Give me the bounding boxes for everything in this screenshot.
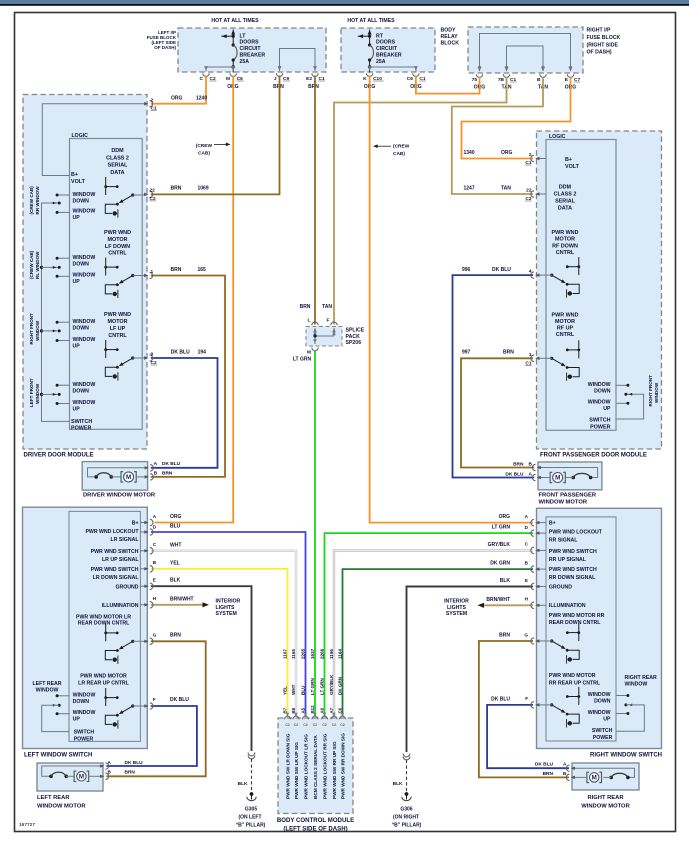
svg-text:J: J (274, 76, 277, 82)
svg-text:B: B (154, 470, 158, 476)
jumper 75 to E inside right fuse block (480, 34, 571, 72)
left switch S-down (G) (105, 623, 107, 641)
svg-text:RF DOWN: RF DOWN (552, 243, 578, 249)
svg-text:DK BLU: DK BLU (535, 762, 554, 768)
right switch pin A (535, 521, 539, 524)
wire BRN (right switch G to right rear motor B) (479, 641, 569, 777)
svg-text:B: B (537, 77, 541, 83)
svg-text:(ON LEFT: (ON LEFT (238, 815, 261, 821)
svg-text:A7: A7 (329, 707, 334, 713)
driver motor pin A (145, 466, 149, 469)
svg-text:LOGIC: LOGIC (549, 134, 566, 140)
svg-text:GRY/BLK: GRY/BLK (329, 674, 334, 695)
svg-text:RR WINDOW: RR WINDOW (35, 186, 40, 215)
svg-text:CAB): CAB) (393, 151, 405, 157)
svg-text:LR REAR UP CNTRL: LR REAR UP CNTRL (78, 680, 129, 686)
svg-text:GRY/BLK: GRY/BLK (488, 542, 511, 548)
svg-text:LT: LT (240, 33, 247, 39)
front passenger door module logic box (546, 140, 616, 431)
svg-text:WINDOW: WINDOW (73, 382, 96, 388)
svg-text:B+: B+ (132, 521, 139, 527)
svg-text:BRN: BRN (499, 633, 510, 639)
svg-text:LIGHTS: LIGHTS (447, 605, 467, 611)
svg-text:PWR WND MOTOR RR: PWR WND MOTOR RR (549, 613, 605, 619)
jumper J to E2 inside left fuse block (280, 49, 316, 72)
svg-text:LOGIC: LOGIC (72, 133, 89, 139)
passenger switch S1 (RF down) (578, 257, 580, 275)
wire ORG from pin M/C6 to left window switch pin A (155, 76, 234, 523)
svg-text:PWR WND: PWR WND (552, 230, 579, 236)
svg-text:167727: 167727 (19, 822, 35, 828)
svg-text:DK BLU: DK BLU (505, 472, 524, 478)
svg-text:ORG: ORG (499, 514, 511, 520)
wire ORG from pin K/C10 to right window switch pin A (370, 76, 533, 523)
svg-text:WINDOW: WINDOW (73, 273, 96, 279)
svg-text:B: B (153, 560, 157, 565)
ground symbol G305 (250, 792, 254, 796)
svg-text:1069: 1069 (198, 186, 209, 192)
svg-text:PWR WND SWITCH: PWR WND SWITCH (549, 567, 597, 573)
svg-text:UP: UP (73, 406, 81, 412)
svg-text:PWR WND LOCKOUT LR SIG: PWR WND LOCKOUT LR SIG (304, 734, 309, 799)
svg-text:PWR WND SW LR UP SIG: PWR WND SW LR UP SIG (294, 742, 299, 799)
passenger switch S2 (RF up) (578, 340, 580, 358)
svg-text:M: M (307, 350, 311, 356)
title bar (0, 0, 689, 4)
svg-text:WHT: WHT (291, 684, 296, 695)
svg-text:(CREW: (CREW (196, 143, 213, 149)
svg-text:M: M (555, 475, 560, 482)
wire DK GRN (BCM C6 to right switch B) (343, 569, 534, 716)
passenger module pin 1/C1 (535, 357, 539, 360)
pin M / C6 (231, 66, 235, 71)
left switch pin H (144, 603, 148, 606)
svg-text:MOTOR: MOTOR (555, 319, 575, 325)
svg-text:WINDOW: WINDOW (588, 692, 611, 698)
left rear motor pin B (100, 775, 104, 778)
svg-text:H: H (153, 596, 157, 601)
wire BRN/WHT to interior lights (right) (483, 604, 533, 606)
svg-text:25A: 25A (240, 59, 250, 65)
contact group RIGHT FRONT WINDOW (passenger) (616, 384, 628, 386)
svg-text:1164: 1164 (337, 649, 342, 659)
svg-text:A: A (153, 514, 157, 519)
svg-text:BRN: BRN (513, 461, 524, 467)
svg-text:LT GRN: LT GRN (319, 678, 324, 695)
left rear motor pin A (100, 764, 104, 767)
wire: breaker to pin C inside box (206, 66, 233, 68)
svg-text:PWR WND LOCKOUT: PWR WND LOCKOUT (549, 529, 603, 535)
svg-text:F: F (525, 696, 528, 701)
svg-text:BLK: BLK (500, 578, 511, 584)
svg-text:C2: C2 (322, 723, 327, 727)
svg-text:RIGHT REAR: RIGHT REAR (587, 795, 624, 801)
svg-text:WINDOW MOTOR: WINDOW MOTOR (539, 500, 588, 506)
svg-text:165: 165 (198, 267, 207, 273)
pin C / C2 (204, 66, 208, 71)
pin 7B / C1 (505, 67, 509, 72)
svg-text:DDM: DDM (111, 148, 124, 154)
ground symbol G306 (405, 792, 409, 796)
svg-text:DK BLU: DK BLU (492, 267, 511, 273)
svg-text:CNTRL: CNTRL (556, 250, 575, 256)
svg-text:CIRCUIT: CIRCUIT (240, 46, 262, 52)
svg-text:BCM CLASS 2 SERIAL DATA: BCM CLASS 2 SERIAL DATA (313, 735, 318, 799)
svg-text:FUSE BLOCK: FUSE BLOCK (587, 35, 621, 41)
svg-text:WINDOW: WINDOW (73, 400, 96, 406)
svg-text:OF DASH): OF DASH) (587, 50, 612, 56)
wire TAN 1247 (fuse pin B to passenger module pin 22) (452, 77, 543, 195)
svg-text:CLASS 2: CLASS 2 (554, 191, 577, 197)
svg-text:1: 1 (151, 269, 154, 275)
svg-text:RIGHT FRONT: RIGHT FRONT (648, 375, 653, 407)
svg-text:BRN: BRN (170, 633, 181, 639)
motor M1 driver window (124, 472, 134, 482)
svg-text:2266: 2266 (319, 648, 324, 659)
svg-text:SWITCH: SWITCH (74, 729, 95, 735)
driver pin lines to edge (133, 194, 147, 196)
svg-text:GROUND: GROUND (549, 585, 572, 591)
svg-text:(ON RIGHT: (ON RIGHT (393, 815, 419, 821)
svg-text:G: G (153, 633, 157, 638)
svg-text:BLU: BLU (300, 685, 305, 695)
svg-text:C2: C2 (285, 723, 290, 727)
passenger module pin 2/C1 (535, 157, 539, 160)
svg-text:C2: C2 (313, 723, 318, 727)
splice pin F (332, 328, 336, 333)
svg-text:25A: 25A (376, 59, 386, 65)
front passenger window motor box (538, 462, 602, 490)
svg-text:B: B (529, 461, 533, 467)
svg-text:BLK: BLK (393, 781, 403, 787)
svg-text:RR UP SIGNAL: RR UP SIGNAL (549, 557, 587, 563)
svg-text:C2: C2 (303, 723, 308, 727)
right rear motor internal loop (572, 768, 634, 777)
svg-text:UP: UP (73, 343, 81, 349)
svg-text:RF UP: RF UP (557, 326, 574, 332)
svg-text:RIGHT WINDOW SWITCH: RIGHT WINDOW SWITCH (590, 753, 662, 759)
svg-text:A: A (525, 514, 529, 519)
right switch pin C (535, 549, 539, 552)
svg-text:BRN: BRN (162, 470, 173, 476)
right window switch box (537, 508, 662, 748)
left window switch inner box (69, 511, 140, 741)
contact group RIGHT FRONT WINDOW (driver) (57, 321, 70, 323)
svg-text:RIGHT FRONT: RIGHT FRONT (29, 313, 34, 345)
svg-text:(CREW: (CREW (393, 143, 410, 149)
svg-text:B7: B7 (282, 707, 287, 713)
svg-text:H: H (525, 597, 529, 602)
svg-text:RIGHT I/P: RIGHT I/P (587, 28, 611, 34)
svg-text:M: M (79, 774, 84, 781)
svg-text:LF DOWN: LF DOWN (105, 244, 130, 250)
svg-text:DOWN: DOWN (73, 699, 90, 705)
svg-text:C: C (525, 542, 529, 547)
svg-text:WINDOW: WINDOW (73, 337, 96, 343)
driver module pin 2/C1 (144, 102, 148, 105)
wire: pin 2 to B+ VOLT feed (42, 104, 147, 176)
svg-text:FRONT PASSENGER: FRONT PASSENGER (539, 492, 597, 498)
svg-text:“B” PILLAR): “B” PILLAR) (392, 823, 422, 829)
svg-text:2265: 2265 (300, 648, 305, 659)
svg-text:LR UP SIGNAL: LR UP SIGNAL (102, 557, 139, 563)
svg-text:(CREW CAB): (CREW CAB) (29, 250, 34, 279)
svg-text:F: F (153, 697, 156, 702)
svg-text:1: 1 (529, 352, 532, 358)
contact group (CREW CAB) RR WINDOW (57, 194, 70, 196)
svg-text:WINDOW MOTOR: WINDOW MOTOR (581, 804, 630, 810)
svg-text:BRN: BRN (503, 350, 514, 356)
left switch pin B (144, 567, 148, 570)
svg-text:LT GRN: LT GRN (492, 525, 511, 531)
svg-text:HOT AT ALL TIMES: HOT AT ALL TIMES (211, 18, 259, 24)
svg-text:CNTRL: CNTRL (108, 333, 127, 339)
svg-text:1340: 1340 (464, 150, 475, 156)
svg-text:BRN: BRN (125, 770, 136, 776)
svg-text:WINDOW: WINDOW (73, 192, 96, 198)
svg-text:WINDOW: WINDOW (654, 382, 659, 403)
wire BRN from pin E2 to splice pack pin L (314, 76, 316, 325)
svg-text:PWR WND SW RR UP SIG: PWR WND SW RR UP SIG (332, 741, 337, 799)
svg-text:BODY CONTROL MODULE: BODY CONTROL MODULE (277, 817, 354, 824)
svg-text:SPLICE: SPLICE (346, 328, 365, 334)
left switch power bus (42, 705, 69, 731)
contact group (CREW CAB) RL WINDOW (57, 257, 70, 259)
svg-text:RR DOWN SIGNAL: RR DOWN SIGNAL (549, 575, 596, 581)
svg-text:UP: UP (73, 215, 81, 221)
svg-text:22: 22 (526, 188, 532, 194)
svg-text:LIGHTS: LIGHTS (216, 605, 236, 611)
svg-text:DOORS: DOORS (376, 40, 396, 46)
svg-text:C6: C6 (337, 707, 342, 713)
svg-text:K: K (363, 76, 367, 82)
svg-text:PWR WND SW RR DOWN SIG: PWR WND SW RR DOWN SIG (341, 733, 346, 799)
svg-text:WINDOW: WINDOW (588, 400, 611, 406)
svg-text:DOORS: DOORS (240, 40, 260, 46)
svg-text:BLU: BLU (170, 524, 181, 530)
passenger module pin 22/C2 (535, 192, 539, 195)
svg-text:RELAY: RELAY (441, 34, 459, 40)
svg-text:C2: C2 (332, 723, 337, 727)
svg-text:INTERIOR: INTERIOR (444, 599, 469, 605)
svg-text:YEL: YEL (282, 686, 287, 695)
svg-text:PWR WND MOTOR: PWR WND MOTOR (549, 673, 596, 679)
svg-text:BLK: BLK (238, 781, 248, 787)
left switch pin D (144, 530, 148, 533)
svg-text:PACK: PACK (346, 334, 361, 340)
svg-text:RL WINDOW: RL WINDOW (35, 251, 40, 279)
wire BRN 165 (driver pin 1 to driver window motor B) (151, 276, 225, 477)
svg-text:LEFT REAR: LEFT REAR (37, 795, 70, 801)
svg-text:RIGHT REAR: RIGHT REAR (625, 675, 658, 681)
svg-text:SERIAL: SERIAL (108, 163, 128, 169)
svg-text:1165: 1165 (291, 649, 296, 659)
svg-text:POWER: POWER (590, 425, 610, 431)
wire BRN 1069 (driver pin 22 to fuse pin J) (151, 76, 280, 195)
svg-text:LEFT WINDOW SWITCH: LEFT WINDOW SWITCH (24, 753, 92, 759)
svg-text:POWER: POWER (593, 735, 613, 741)
svg-text:REAR DOWN CNTRL: REAR DOWN CNTRL (549, 620, 601, 626)
svg-text:C: C (200, 76, 204, 82)
left switch S-up (F) (105, 688, 107, 706)
splice internal wiring (314, 328, 316, 344)
ground G305 wire connector (248, 753, 255, 756)
svg-text:75: 75 (472, 77, 478, 83)
svg-text:1196: 1196 (329, 649, 334, 659)
svg-text:MOTOR: MOTOR (108, 319, 128, 325)
svg-text:1240: 1240 (196, 95, 207, 101)
svg-text:CNTRL: CNTRL (108, 251, 127, 257)
splice pin L (313, 328, 317, 333)
driver switch power bus (42, 203, 70, 421)
svg-text:BLOCK: BLOCK (441, 40, 460, 46)
right window switch inner box (546, 517, 616, 741)
pin C6 / C1 (breaker box) (414, 66, 418, 71)
svg-text:UP: UP (603, 406, 611, 412)
svg-text:DK BLU: DK BLU (171, 349, 190, 355)
svg-text:SERIAL: SERIAL (555, 198, 575, 204)
svg-text:YEL: YEL (170, 560, 180, 566)
svg-text:BRN: BRN (171, 267, 182, 273)
circuit breaker CB-RT DOORS 25A (369, 30, 371, 45)
svg-text:DDM: DDM (559, 184, 572, 190)
svg-text:B: B (108, 770, 112, 775)
pin 75 (478, 67, 482, 72)
svg-text:E: E (153, 578, 156, 583)
svg-text:SWITCH: SWITCH (589, 418, 610, 424)
svg-text:996: 996 (462, 267, 471, 273)
passenger pin lines (537, 274, 553, 276)
svg-text:1637: 1637 (310, 648, 315, 659)
svg-text:VOLT: VOLT (71, 179, 86, 185)
driver switch S1 (serial data) (105, 177, 107, 195)
driver motor pin B (145, 475, 149, 478)
svg-text:22: 22 (150, 187, 156, 193)
svg-text:D: D (153, 524, 157, 529)
svg-text:WHT: WHT (170, 542, 181, 548)
driver switch S2 (LF down) (105, 258, 107, 276)
wire GRY/BLK (BCM A7 to right switch C) (334, 550, 533, 716)
svg-text:C2: C2 (340, 723, 345, 727)
motor M4 right rear window (590, 773, 599, 782)
svg-text:WINDOW: WINDOW (35, 383, 40, 404)
svg-text:WINDOW: WINDOW (73, 255, 96, 261)
right switch internal pin lines (537, 522, 547, 524)
svg-text:LT GRN: LT GRN (310, 678, 315, 695)
svg-text:E2: E2 (306, 76, 312, 82)
svg-text:(RIGHT SIDE: (RIGHT SIDE (587, 42, 619, 48)
svg-text:RT: RT (376, 33, 384, 39)
wire BLK (right switch E to ground G306) (407, 587, 534, 753)
svg-text:E: E (525, 578, 528, 583)
svg-text:WINDOW: WINDOW (35, 320, 40, 341)
svg-text:RR REAR UP CNTRL: RR REAR UP CNTRL (549, 680, 601, 686)
svg-text:PWR WND: PWR WND (104, 312, 131, 318)
wire LT GRN (BCM A6 to right switch D) (325, 533, 534, 716)
svg-text:2: 2 (151, 98, 154, 104)
svg-text:1167: 1167 (282, 649, 287, 659)
svg-text:B+: B+ (71, 172, 78, 178)
wire ORG 1340 (fuse pin E to passenger module pin 2) (462, 77, 571, 159)
svg-text:DK BLU: DK BLU (162, 461, 181, 467)
right rear motor pin B (571, 776, 575, 779)
splice pin M (312, 348, 318, 351)
left switch pin F (144, 704, 148, 707)
svg-text:BRN: BRN (308, 84, 319, 90)
svg-text:DOWN: DOWN (73, 198, 90, 204)
svg-text:LR DOWN SIGNAL: LR DOWN SIGNAL (93, 575, 140, 581)
svg-text:WINDOW: WINDOW (625, 682, 648, 688)
svg-text:1247: 1247 (464, 186, 475, 192)
splice pack SP206 (dashed box) (306, 327, 342, 347)
svg-text:B: B (525, 560, 529, 565)
svg-text:PWR WND SW LR DOWN SIG: PWR WND SW LR DOWN SIG (286, 733, 291, 799)
right rear motor pin A (571, 766, 575, 769)
right switch pin G (535, 639, 539, 642)
wire BRN (left switch G to left rear motor B) (106, 641, 205, 776)
svg-text:LT GRN: LT GRN (293, 357, 312, 363)
svg-text:(LEFT SIDE OF DASH): (LEFT SIDE OF DASH) (283, 826, 347, 833)
svg-text:DRIVER DOOR MODULE: DRIVER DOOR MODULE (24, 453, 94, 459)
svg-text:OF DASH): OF DASH) (154, 45, 176, 50)
left rear window motor box (37, 763, 103, 791)
svg-text:UP: UP (73, 279, 81, 285)
svg-text:WINDOW: WINDOW (73, 209, 96, 215)
front passenger motor contact arc (571, 476, 575, 480)
svg-text:SP206: SP206 (346, 340, 362, 346)
svg-text:G: G (524, 632, 528, 637)
svg-text:BRN/WHT: BRN/WHT (170, 596, 194, 602)
svg-text:4: 4 (529, 269, 532, 275)
svg-text:WINDOW: WINDOW (588, 710, 611, 716)
front passenger motor internal loop (538, 468, 598, 478)
right switch pin F (535, 703, 539, 706)
svg-text:BREAKER: BREAKER (240, 53, 266, 59)
svg-text:ORG: ORG (170, 514, 182, 520)
svg-text:LEFT REAR: LEFT REAR (32, 681, 61, 687)
wire BRN 997 (passenger pin 1 to front passenger window motor B) (461, 358, 534, 467)
svg-text:PWR WND SWITCH: PWR WND SWITCH (549, 549, 597, 555)
svg-text:DK GRN: DK GRN (490, 561, 510, 567)
svg-text:DOWN: DOWN (73, 261, 90, 267)
svg-text:CLASS 2: CLASS 2 (106, 155, 129, 161)
wire ORG breaker C6 to fuse block pin 75 (416, 76, 480, 94)
svg-text:PWR WND SWITCH: PWR WND SWITCH (91, 567, 139, 573)
pin E / C7 (569, 67, 573, 72)
front passenger door module (dashed box) (537, 131, 662, 449)
right rear window motor box (572, 763, 639, 790)
svg-text:REAR DOWN CNTRL: REAR DOWN CNTRL (78, 621, 130, 627)
jumper 7B to B inside right fuse block (507, 46, 544, 71)
svg-text:TAN: TAN (501, 186, 511, 192)
svg-text:194: 194 (198, 349, 207, 355)
svg-text:G306: G306 (400, 807, 412, 813)
wire YEL (left switch B to BCM B7) (151, 569, 288, 717)
svg-text:LF UP: LF UP (110, 326, 126, 332)
svg-text:UP: UP (603, 716, 611, 722)
right switch pin E (535, 585, 539, 588)
svg-text:HOT AT ALL TIMES: HOT AT ALL TIMES (347, 18, 395, 24)
svg-text:ILLUMINATION: ILLUMINATION (549, 603, 586, 609)
pin K / C10 (368, 66, 372, 71)
passenger module pin 4 (535, 273, 539, 276)
svg-text:DOWN: DOWN (594, 699, 611, 705)
left switch internal pin lines (140, 522, 147, 524)
svg-text:SWITCH: SWITCH (592, 728, 613, 734)
svg-text:RR SIGNAL: RR SIGNAL (549, 537, 578, 543)
svg-text:INTERIOR: INTERIOR (216, 599, 241, 605)
wire BRN/WHT to interior lights (left) (151, 604, 204, 606)
